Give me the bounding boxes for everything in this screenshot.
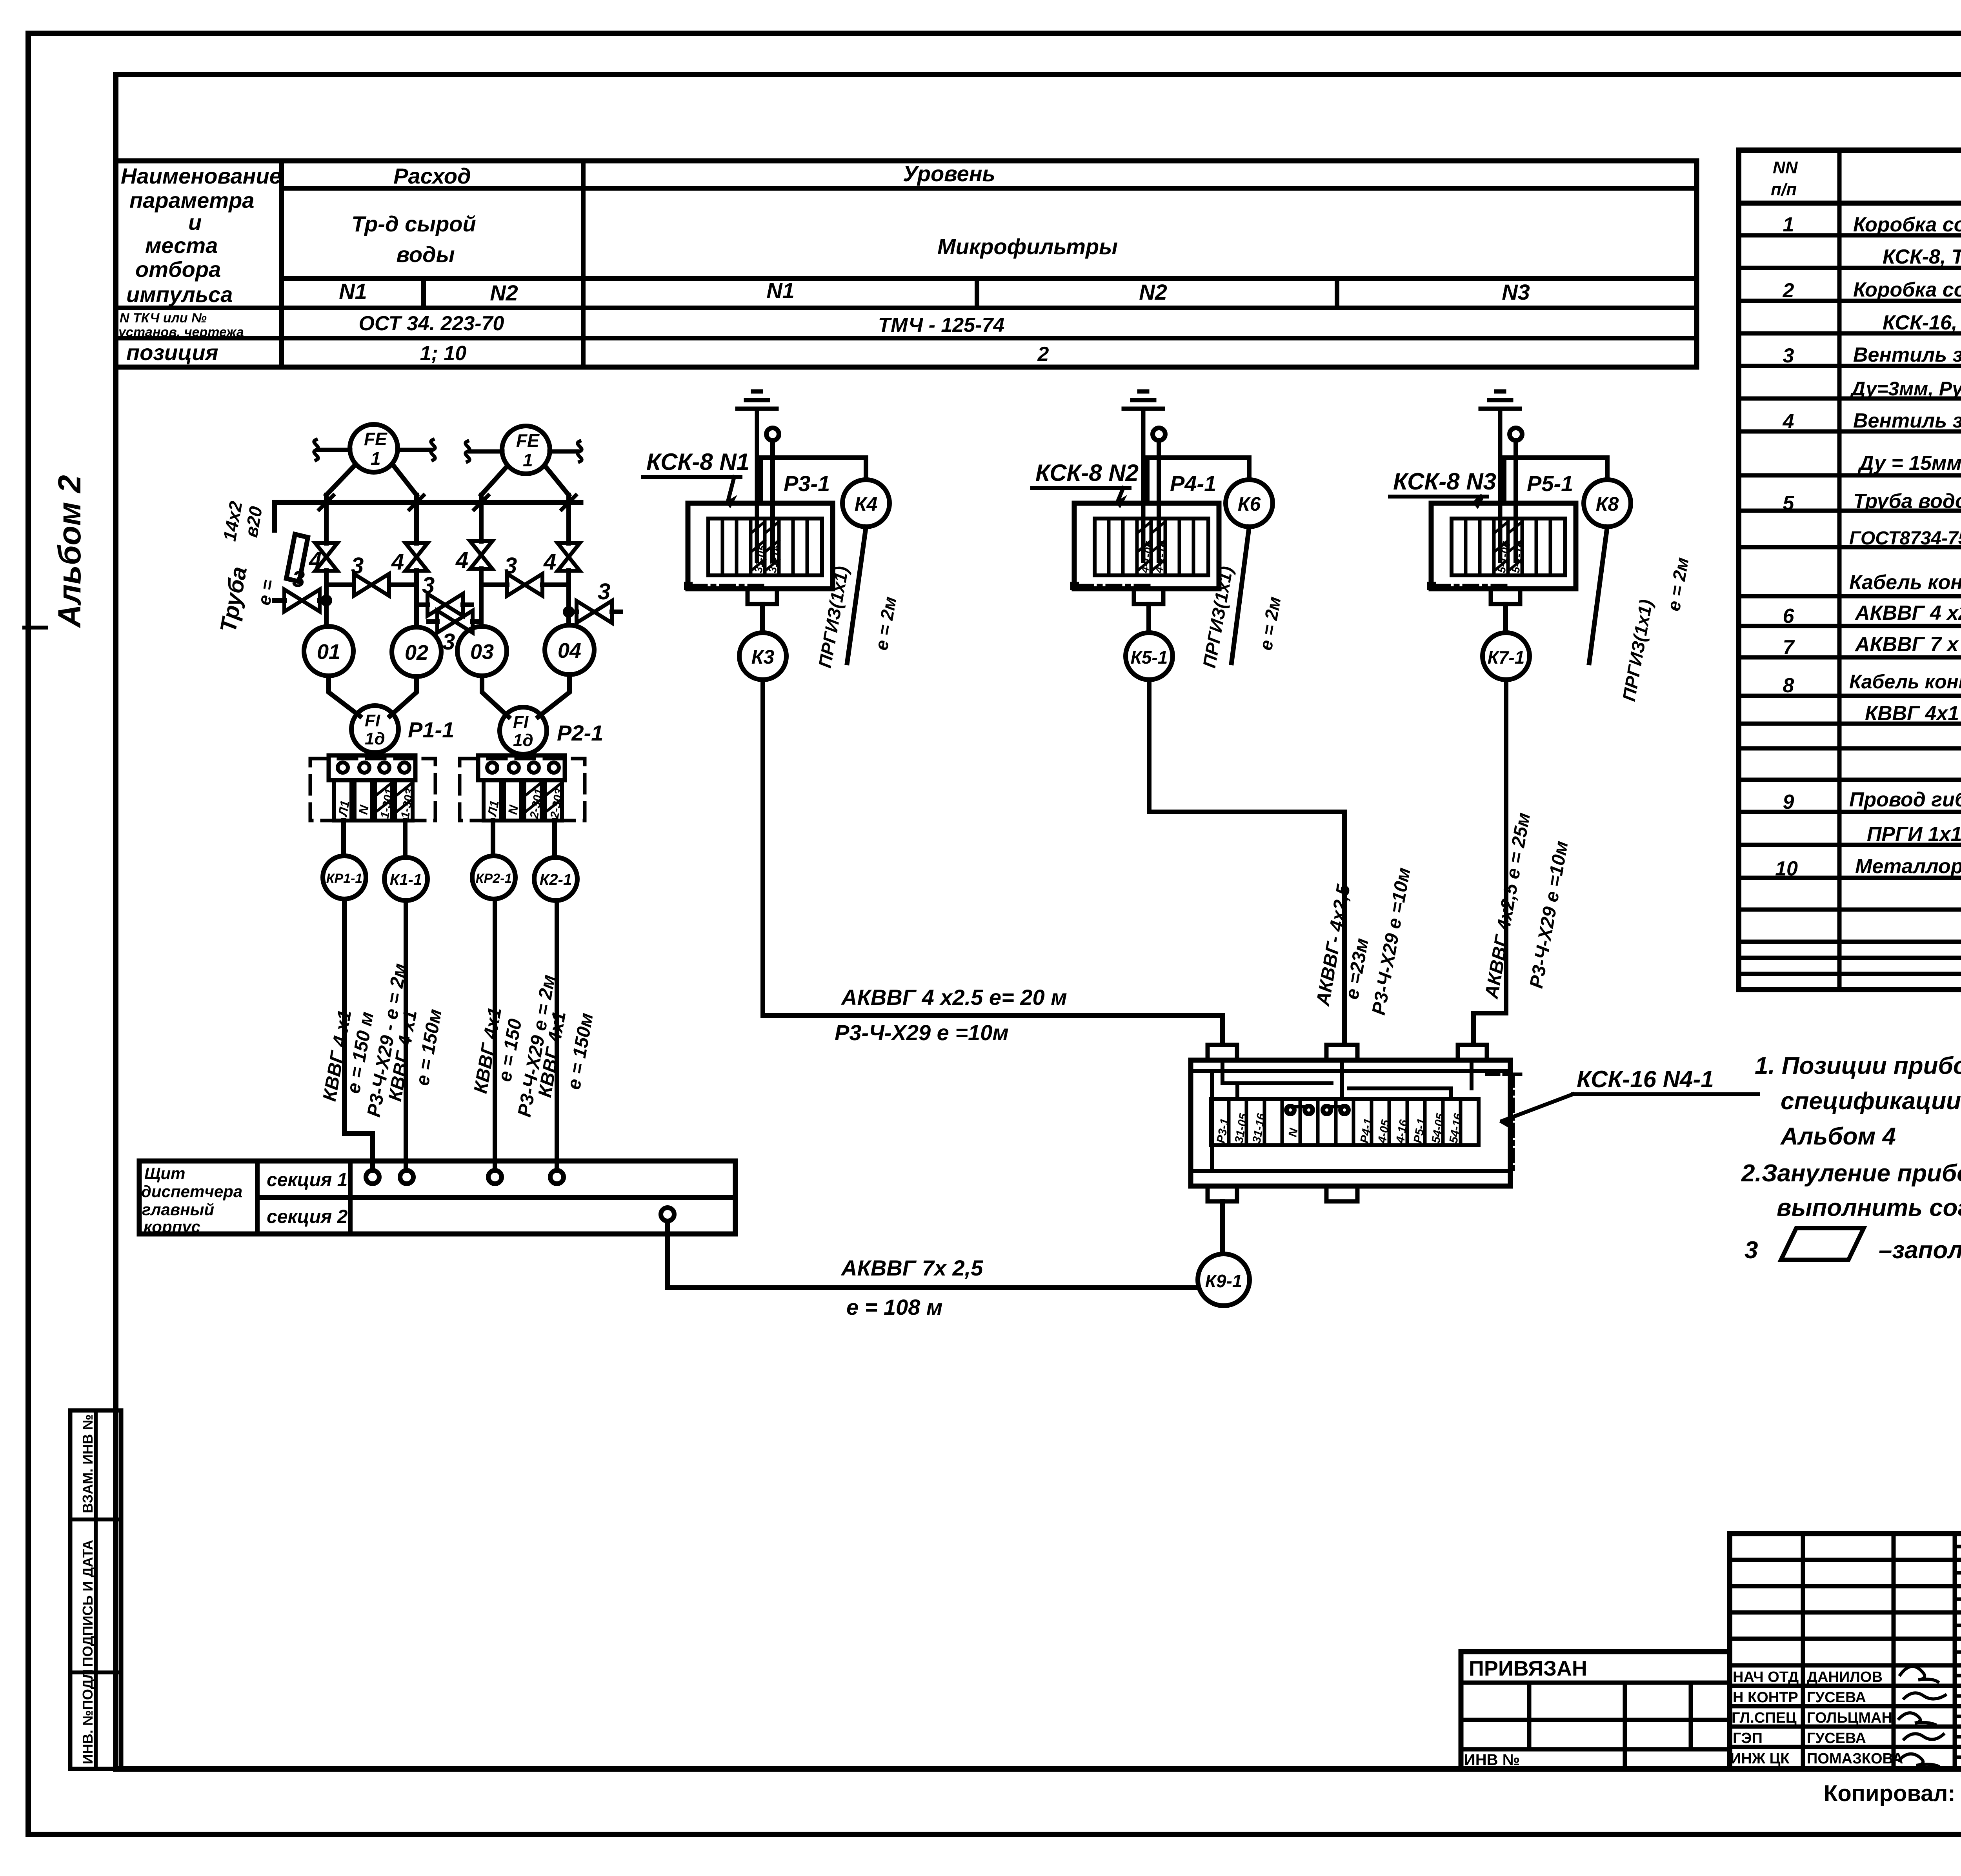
- cable circle К1-1: [384, 857, 427, 901]
- impulse pipe 3: [479, 495, 484, 626]
- cable circle К4: [842, 480, 890, 527]
- impulse pipe 4: [566, 495, 571, 625]
- drop wire К8: [1589, 527, 1607, 663]
- svg-text:К2-1: К2-1: [540, 871, 572, 888]
- valve 3 branch F: [577, 601, 612, 623]
- cable circle К5-1: [1126, 633, 1173, 680]
- svg-text:Щит: Щит: [144, 1164, 186, 1183]
- привязан columns: [1529, 1683, 1691, 1769]
- wire К5-1 down: [1149, 680, 1344, 1045]
- strip hatch N3: [1494, 522, 1522, 571]
- svg-text:N1: N1: [339, 279, 367, 304]
- strip hatch N2: [1137, 522, 1165, 571]
- bottom tab N1: [748, 589, 777, 604]
- svg-text:N2: N2: [490, 280, 518, 305]
- svg-text:К3: К3: [751, 646, 775, 668]
- wire КР2-1 to panel: [493, 899, 497, 1170]
- svg-text:3: 3: [292, 566, 305, 592]
- секция row divider: [257, 1195, 735, 1200]
- valve 3 branch D: [427, 594, 463, 616]
- stamp column divider: [70, 1410, 121, 1769]
- wire К2-1 to panel: [555, 901, 559, 1170]
- instrument circle 03: [457, 626, 507, 676]
- label underline N3: [1390, 495, 1487, 499]
- top tab 1: [1208, 1045, 1237, 1060]
- instrument circle 02: [392, 627, 441, 677]
- svg-text:04: 04: [558, 639, 581, 662]
- svg-text:ДАНИЛОВ: ДАНИЛОВ: [1807, 1669, 1883, 1685]
- svg-text:Копировал: Коршунова: Копировал: Коршунова: [1824, 1781, 1961, 1806]
- N1 N2 divider расход: [421, 278, 426, 308]
- svg-text:Р4-1: Р4-1: [1170, 471, 1216, 496]
- расход/уровень divider: [581, 161, 586, 367]
- svg-text:Р1-1: Р1-1: [408, 717, 454, 742]
- svg-text:3: 3: [422, 573, 435, 598]
- svg-text:Труба водогазопроводная: Труба водогазопроводная: [1853, 490, 1961, 513]
- svg-text:КСК-8, ТУ36. 1753: КСК-8, ТУ36. 1753: [1883, 246, 1961, 268]
- crossing ticks: [319, 495, 576, 509]
- gland circle N3: [1510, 428, 1522, 440]
- svg-text:ИНВ. №ПОДЛ: ИНВ. №ПОДЛ: [80, 1669, 96, 1764]
- wire box2 to КР2-1: [491, 821, 495, 856]
- svg-text:5: 5: [1783, 492, 1795, 515]
- strip hatch N1: [751, 522, 779, 571]
- svg-text:1д: 1д: [365, 729, 385, 748]
- svg-text:отбора: отбора: [135, 257, 221, 282]
- impulse pipe 2: [414, 495, 419, 627]
- valve 4 on pipe1: [315, 543, 337, 571]
- привязан box: [1461, 1652, 1730, 1769]
- box inner rails: [1191, 1071, 1510, 1171]
- wire box2 to К2-1: [552, 821, 557, 857]
- svg-text:1: 1: [1783, 213, 1794, 236]
- terminal strip N2: [1095, 519, 1208, 575]
- parameter table frame: [116, 161, 1697, 367]
- fold mark: [24, 626, 46, 630]
- valve 3 branch A: [354, 574, 389, 596]
- note 3 parallelogram: [1781, 1228, 1864, 1260]
- svg-text:FI: FI: [513, 713, 529, 732]
- blank parallelogram at pipe: [286, 534, 308, 582]
- leader КСК-16: [1502, 1094, 1573, 1121]
- terminal strip КСК-16: [1211, 1099, 1479, 1145]
- name column line: [279, 161, 284, 367]
- gland wire N2: [1157, 440, 1161, 561]
- svg-text:01: 01: [317, 640, 340, 664]
- valve 4 on pipe3: [470, 541, 492, 569]
- svg-text:3: 3: [598, 579, 610, 604]
- svg-text:Провод гибкий с медной жилой: Провод гибкий с медной жилой: [1849, 788, 1961, 811]
- уровень N2/N3 divider: [1335, 278, 1339, 308]
- label underline N2: [1032, 486, 1130, 490]
- leader arrow N2: [1118, 488, 1123, 501]
- svg-text:ГЭП: ГЭП: [1733, 1730, 1763, 1747]
- svg-text:Р2-1: Р2-1: [557, 721, 603, 745]
- svg-text:3: 3: [442, 629, 455, 655]
- wire К7-1 down: [1473, 680, 1506, 1045]
- bus terminal 4: [550, 1170, 564, 1184]
- leader arrow N3: [1475, 497, 1481, 502]
- terminals box2: [487, 762, 497, 773]
- branch D pipe2 stub: [417, 602, 471, 607]
- wire panel to К9-1: [668, 1221, 1198, 1288]
- box1 dashed enclosure: [310, 759, 435, 821]
- уровень N1/N2 divider: [975, 278, 979, 308]
- svg-text:3: 3: [504, 553, 517, 579]
- svg-text:Кабель контрольный ГОСТ1508-78: Кабель контрольный ГОСТ1508-78Е: [1849, 571, 1961, 594]
- svg-text:FI: FI: [365, 711, 380, 730]
- box КСК-8 N2: [1074, 503, 1219, 589]
- wire box1 to К1-1: [403, 821, 407, 857]
- svg-text:АКВВГ 4 х2.5 кв.мм: АКВВГ 4 х2.5 кв.мм: [1854, 602, 1961, 624]
- impulse pipe 1: [324, 495, 329, 626]
- svg-text:КР2-1: КР2-1: [476, 871, 512, 886]
- funnel wires to FI2: [482, 675, 569, 717]
- svg-text:02: 02: [405, 641, 428, 664]
- svg-text:спецификации оборудования АТХ.: спецификации оборудования АТХ.СО: [1781, 1088, 1961, 1115]
- wire tab to К9-1: [1220, 1201, 1225, 1254]
- svg-text:ГУСЕВА: ГУСЕВА: [1807, 1689, 1866, 1706]
- instrument circle 01: [304, 626, 353, 676]
- svg-text:АКВВГ 4 х2.5 е= 20 м: АКВВГ 4 х2.5 е= 20 м: [840, 985, 1067, 1010]
- svg-text:воды: воды: [396, 242, 455, 267]
- svg-text:3: 3: [351, 553, 364, 579]
- svg-text:NN: NN: [1773, 158, 1798, 177]
- svg-text:ПОДПИСЬ И ДАТА: ПОДПИСЬ И ДАТА: [80, 1540, 96, 1667]
- svg-text:ОСТ 34. 223-70: ОСТ 34. 223-70: [359, 312, 504, 335]
- svg-text:4: 4: [543, 549, 556, 575]
- ОСТ row bottom line: [116, 336, 1697, 340]
- svg-text:установ. чертежа: установ. чертежа: [118, 325, 244, 340]
- svg-text:секция 1: секция 1: [267, 1170, 347, 1190]
- box1 cell hatch: [375, 782, 413, 813]
- box2 dashed enclosure: [460, 759, 585, 821]
- svg-text:е = 108 м: е = 108 м: [846, 1295, 942, 1319]
- valve 4 on pipe4: [558, 543, 580, 571]
- svg-text:главный: главный: [142, 1200, 214, 1219]
- svg-text:6: 6: [1783, 605, 1795, 628]
- bus terminal 2: [400, 1170, 413, 1184]
- terminal strip N3: [1452, 519, 1565, 575]
- FE1 break symbols: [314, 440, 318, 460]
- svg-text:3: 3: [1745, 1237, 1758, 1264]
- main pipe line: [275, 500, 581, 505]
- chain line N1: [684, 582, 693, 590]
- svg-text:и: и: [188, 210, 202, 235]
- wire К3 down: [763, 680, 1222, 1045]
- chain line N2: [1070, 582, 1079, 590]
- svg-text:Л1: Л1: [335, 799, 352, 818]
- wire tab to К3: [760, 604, 765, 633]
- jumper terminals: [1286, 1106, 1294, 1114]
- label underline N1: [643, 475, 740, 479]
- svg-text:03: 03: [470, 640, 494, 664]
- cable circle КР1-1: [323, 856, 366, 899]
- internal wiring left: [1222, 1060, 1332, 1099]
- svg-text:параметра: параметра: [129, 188, 254, 213]
- svg-text:Вентиль запорный муфтовый: Вентиль запорный муфтовый: [1853, 344, 1961, 366]
- ground symbol N1: [737, 391, 777, 561]
- svg-text:N1: N1: [766, 278, 795, 303]
- svg-text:1; 10: 1; 10: [420, 342, 467, 365]
- branch A pipe1-pipe2: [326, 582, 417, 587]
- branch B pipe3-pipe4: [481, 582, 569, 587]
- svg-text:КСК-16, ТУ36. 1753: КСК-16, ТУ36. 1753: [1883, 311, 1961, 334]
- valve 3 branch C: [284, 590, 320, 611]
- svg-text:К4: К4: [855, 493, 878, 515]
- ground symbol N3: [1481, 391, 1520, 561]
- svg-text:места: места: [145, 233, 218, 258]
- drop wire К4: [847, 527, 866, 663]
- svg-text:К5-1: К5-1: [1131, 647, 1168, 668]
- svg-text:Р5-1: Р5-1: [1527, 471, 1573, 496]
- svg-text:ГУСЕВА: ГУСЕВА: [1807, 1730, 1866, 1747]
- svg-text:N ТКЧ или №: N ТКЧ или №: [120, 311, 207, 326]
- valve 3 branch E: [437, 611, 473, 633]
- svg-text:ПОМАЗКОВА: ПОМАЗКОВА: [1807, 1750, 1903, 1767]
- svg-text:Ду = 15мм, 15ч8п2: Ду = 15мм, 15ч8п2: [1857, 452, 1961, 475]
- svg-text:N3: N3: [1502, 280, 1530, 304]
- branch C left stub: [275, 598, 326, 603]
- bottom tab 2: [1326, 1186, 1357, 1201]
- svg-text:Р3-1: Р3-1: [784, 471, 830, 496]
- column NN line: [1837, 150, 1842, 990]
- terminal strip box 1: [329, 755, 415, 780]
- svg-text:КСК-8 N3: КСК-8 N3: [1393, 468, 1496, 495]
- funnel wires to FI1: [329, 676, 417, 716]
- svg-text:выполнить согласно ПУЭ-85§1-: выполнить согласно ПУЭ-85§1-7-У6: [1777, 1194, 1961, 1221]
- svg-text:Кабель контрольный с медной жи: Кабель контрольный с медной жилой: [1849, 671, 1961, 693]
- terminals box1: [338, 762, 348, 773]
- svg-text:Тр-д сырой: Тр-д сырой: [351, 211, 476, 236]
- FE2 break symbols: [466, 441, 469, 462]
- svg-text:3: 3: [1783, 344, 1794, 367]
- box1 cells: [334, 780, 351, 821]
- svg-text:п/п: п/п: [1771, 180, 1797, 199]
- wire to К8: [1504, 458, 1607, 503]
- svg-text:КВВГ 4х1 кв.мм.: КВВГ 4х1 кв.мм.: [1865, 702, 1961, 725]
- svg-text:1д: 1д: [513, 731, 533, 750]
- svg-text:ГОЛЬЦМАН: ГОЛЬЦМАН: [1807, 1710, 1892, 1726]
- cable circle К2-1: [534, 857, 577, 901]
- svg-text:ВЗАМ. ИНВ №: ВЗАМ. ИНВ №: [80, 1414, 96, 1513]
- svg-text:ИНВ №: ИНВ №: [1464, 1751, 1520, 1769]
- svg-text:Р3-Ч-Х29 е =10м: Р3-Ч-Х29 е =10м: [835, 1020, 1009, 1045]
- svg-text:1: 1: [523, 450, 533, 470]
- svg-text:КР1-1: КР1-1: [326, 871, 363, 886]
- svg-text:FE: FE: [516, 430, 540, 451]
- ground symbol N2: [1124, 391, 1163, 561]
- bottom tab 1: [1208, 1186, 1237, 1201]
- top tab 3: [1458, 1045, 1487, 1060]
- internal wiring right: [1470, 1060, 1473, 1088]
- svg-text:К9-1: К9-1: [1205, 1271, 1242, 1291]
- svg-text:КСК-16 N4-1: КСК-16 N4-1: [1577, 1066, 1714, 1092]
- chain line N3: [1427, 582, 1436, 590]
- box КСК-16 outline: [1191, 1060, 1510, 1186]
- bottom tab N3: [1491, 589, 1520, 604]
- leader arrow N1: [728, 477, 734, 501]
- svg-text:Альбом 2: Альбом 2: [52, 475, 87, 628]
- label underline КСК-16: [1573, 1092, 1758, 1096]
- gland wire N3: [1513, 440, 1518, 561]
- svg-text:КСК-8 N1: КСК-8 N1: [646, 449, 749, 475]
- FE1 side bars: [318, 448, 431, 452]
- svg-text:К8: К8: [1596, 493, 1619, 515]
- svg-text:импульса: импульса: [126, 282, 233, 307]
- svg-text:Микрофильтры: Микрофильтры: [937, 234, 1118, 259]
- left stamp column box: [70, 1410, 121, 1769]
- svg-text:секция 2: секция 2: [267, 1206, 348, 1227]
- svg-text:ГОСТ8734-75 ГОСТ8733-87: ГОСТ8734-75 ГОСТ8733-87: [1849, 528, 1961, 549]
- signature scribbles: [1900, 1666, 1938, 1682]
- panel label cell divider: [255, 1161, 260, 1234]
- branch F pipe4 stub: [569, 610, 620, 614]
- gland wire N1: [770, 440, 775, 561]
- title block outline: [1730, 1534, 1961, 1769]
- box КСК-8 N1: [688, 503, 833, 589]
- svg-text:АКВВГ 7х 2,5: АКВВГ 7х 2,5: [840, 1256, 983, 1280]
- svg-text:Наименование: Наименование: [121, 164, 282, 188]
- svg-text:Коробка соединительная: Коробка соединительная: [1853, 213, 1961, 236]
- pipe left end tick: [272, 502, 277, 530]
- terminal strip N1: [708, 519, 822, 575]
- svg-text:FE: FE: [364, 429, 387, 449]
- bottom tab N2: [1134, 589, 1163, 604]
- svg-text:1. Позиции приборов соответств: 1. Позиции приборов соответствуют: [1755, 1052, 1961, 1079]
- wire tab to К5-1: [1146, 604, 1151, 633]
- svg-text:9: 9: [1783, 791, 1794, 813]
- svg-text:1: 1: [371, 448, 381, 469]
- cable circle КР2-1: [472, 856, 515, 899]
- box КСК-8 N3: [1431, 503, 1576, 589]
- wire box1 to КР1-1: [341, 821, 346, 856]
- parts table frame: [1739, 150, 1961, 990]
- svg-text:8: 8: [1783, 674, 1794, 697]
- svg-text:4: 4: [1783, 410, 1794, 433]
- junction dot C: [323, 597, 330, 604]
- svg-text:ПРИВЯЗАН: ПРИВЯЗАН: [1469, 1657, 1587, 1680]
- svg-text:позиция: позиция: [126, 340, 218, 365]
- signature rows: [1730, 1665, 1961, 1747]
- svg-text:–заполняется при привязке п: –заполняется при привязке проекта.: [1879, 1237, 1961, 1264]
- svg-text:ТМЧ - 125-74: ТМЧ - 125-74: [878, 314, 1005, 337]
- svg-text:ИНЖ ЦК: ИНЖ ЦК: [1730, 1750, 1790, 1767]
- box2 cells: [484, 780, 501, 821]
- box2 cell hatch: [524, 782, 562, 813]
- branch E pipe3 stub: [429, 619, 481, 624]
- gland circle N1: [766, 428, 779, 440]
- FE1 bend connectors: [326, 466, 417, 495]
- svg-text:2.Зануление приборов, соединит: 2.Зануление приборов, соединительных кор…: [1741, 1160, 1961, 1187]
- top tab 2: [1326, 1045, 1357, 1060]
- FE2 bend connectors: [481, 468, 569, 495]
- svg-text:К6: К6: [1238, 493, 1261, 515]
- svg-text:2: 2: [1783, 279, 1794, 302]
- svg-text:Н КОНТР: Н КОНТР: [1733, 1689, 1798, 1706]
- секция cell divider: [348, 1161, 353, 1234]
- bus terminal 3: [488, 1170, 502, 1184]
- N row bottom line: [116, 306, 1697, 310]
- svg-text:Расход: Расход: [393, 164, 471, 188]
- flow element FE2: [502, 426, 550, 474]
- cable circle К3: [739, 633, 786, 680]
- svg-text:4: 4: [309, 548, 322, 573]
- svg-text:НАЧ ОТД: НАЧ ОТД: [1733, 1669, 1799, 1685]
- svg-text:К1-1: К1-1: [390, 871, 422, 888]
- ladder rows narrow column: [1955, 1547, 1961, 1757]
- svg-text:N2: N2: [1139, 280, 1167, 304]
- wire К1-1 to panel: [404, 901, 408, 1170]
- cable circle К7-1: [1483, 633, 1530, 680]
- panel outline: [139, 1161, 735, 1234]
- svg-text:Ду=3мм, Ру=16 кгс/см² 3в=2м: Ду=3мм, Ру=16 кгс/см² 3в=2м: [1850, 378, 1961, 400]
- header bottom line: [1739, 201, 1961, 206]
- upper revision rows: [1730, 1560, 1961, 1639]
- wire КР1-1 to panel: [344, 899, 373, 1170]
- chain line right side: [1472, 1074, 1521, 1171]
- drop wire К6: [1232, 527, 1249, 663]
- wire to К4: [761, 458, 866, 503]
- svg-text:ГЛ.СПЕЦ: ГЛ.СПЕЦ: [1732, 1710, 1797, 1726]
- svg-text:2: 2: [1037, 343, 1049, 366]
- svg-text:ПРГИ 1х1 кв. мм: ПРГИ 1х1 кв. мм: [1867, 823, 1961, 846]
- valve 4 on pipe2: [406, 543, 427, 571]
- flow element FE1: [350, 424, 398, 472]
- svg-text:АКВВГ 7 х 2.5 кв.мм: АКВВГ 7 х 2.5 кв.мм: [1854, 633, 1961, 656]
- svg-text:диспетчера: диспетчера: [141, 1182, 242, 1201]
- svg-text:Л1: Л1: [485, 799, 502, 818]
- svg-text:Уровень: Уровень: [903, 161, 995, 186]
- FE2 side bars: [470, 449, 577, 454]
- svg-text:К7-1: К7-1: [1488, 647, 1525, 668]
- svg-text:Вентиль запорный муфтовый: Вентиль запорный муфтовый: [1853, 409, 1961, 432]
- svg-text:7: 7: [1783, 636, 1795, 659]
- wire to К6: [1147, 458, 1249, 503]
- bus terminal 1: [366, 1170, 379, 1184]
- row lines: [1739, 235, 1961, 974]
- gland circle N2: [1153, 428, 1165, 440]
- svg-text:10: 10: [1775, 857, 1798, 880]
- valve 3 branch B: [507, 574, 542, 596]
- header row line: [282, 186, 1697, 191]
- svg-text:4: 4: [391, 549, 404, 575]
- junction dot F: [565, 608, 572, 615]
- bus terminal секция2: [661, 1208, 674, 1221]
- subheader row line: [282, 276, 1697, 281]
- привязан rows: [1461, 1683, 1730, 1749]
- cable circle К9-1: [1198, 1254, 1250, 1306]
- svg-text:4: 4: [455, 548, 468, 573]
- svg-text:Коробка соединительная: Коробка соединительная: [1853, 278, 1961, 301]
- svg-text:Металлорукав Р3-Ч-Х29: Металлорукав Р3-Ч-Х29: [1855, 855, 1961, 878]
- svg-text:КСК-8 N2: КСК-8 N2: [1035, 460, 1139, 486]
- svg-text:корпус: корпус: [144, 1217, 200, 1236]
- terminal strip box 2: [478, 755, 565, 780]
- flow indicator FI2: [500, 707, 547, 754]
- cable circle К6: [1226, 480, 1273, 527]
- flow indicator FI1: [351, 706, 398, 753]
- wire tab to К7-1: [1503, 604, 1508, 633]
- instrument circle 04: [545, 625, 594, 675]
- signature columns: [1803, 1534, 1961, 1769]
- internal wiring mid: [1342, 1060, 1451, 1099]
- cable circle К8: [1584, 480, 1631, 527]
- svg-text:Альбом 4: Альбом 4: [1780, 1123, 1896, 1150]
